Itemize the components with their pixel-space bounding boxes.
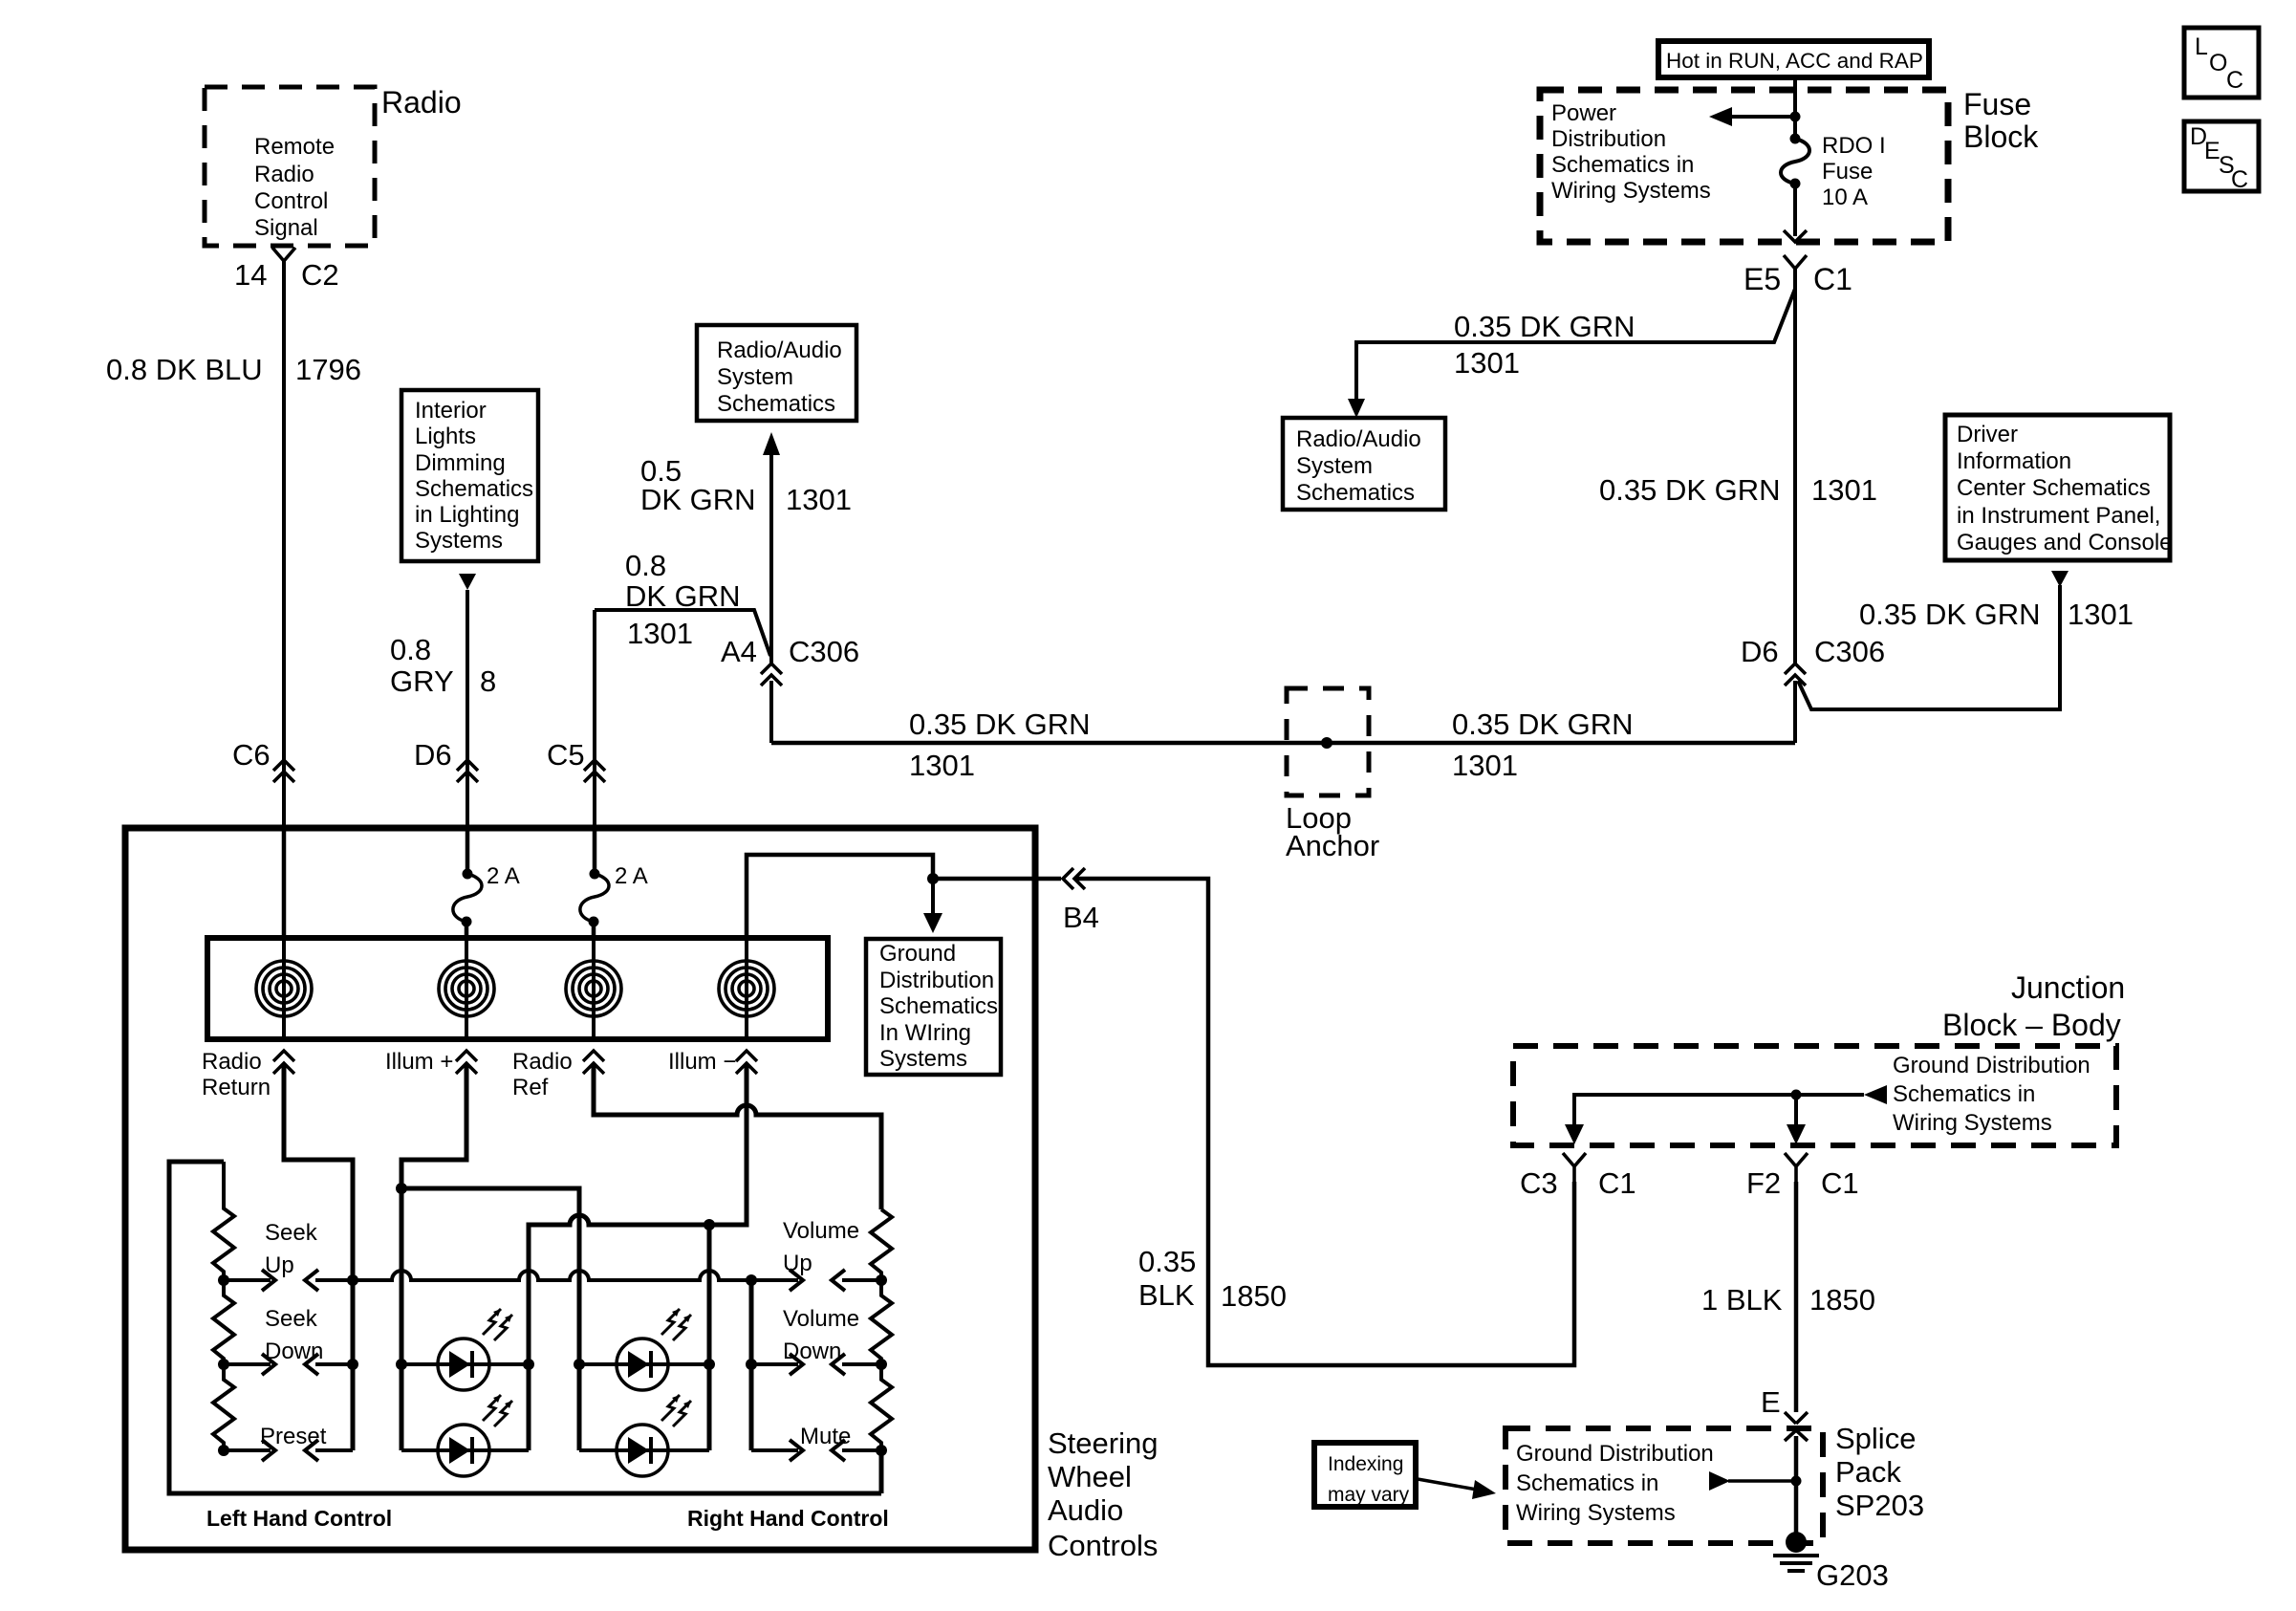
volume chain R6 mute bbox=[871, 1364, 892, 1450]
svg-text:Power: Power bbox=[1551, 100, 1616, 126]
label 1 BLK 1850 bbox=[1701, 1283, 1875, 1317]
wire radio return to switch common bbox=[284, 1063, 353, 1450]
svg-text:Preset: Preset bbox=[260, 1424, 327, 1449]
loop anchor box (dashed) bbox=[1286, 688, 1379, 862]
svg-text:Schematics: Schematics bbox=[717, 391, 835, 417]
LED D2 bbox=[401, 1395, 529, 1476]
svg-text:1796: 1796 bbox=[295, 353, 361, 386]
indexing may vary box bbox=[1314, 1443, 1416, 1507]
wire C5 drop to steering box bbox=[593, 610, 596, 828]
splice pack ground distribution box (dashed) bbox=[1505, 1428, 1823, 1543]
wire illum- to LED rails bbox=[529, 1063, 747, 1450]
wire from hot box into fuse block bbox=[1793, 77, 1797, 139]
radio/audio system schematics box 1 bbox=[697, 325, 856, 421]
svg-text:D6: D6 bbox=[1741, 635, 1779, 668]
coil L4 illum- bbox=[719, 938, 774, 1039]
svg-text:0.35 DK GRN: 0.35 DK GRN bbox=[1452, 708, 1634, 741]
wire volume chain bottom bbox=[879, 1450, 884, 1493]
svg-text:0.35 DK GRN: 0.35 DK GRN bbox=[1859, 598, 2041, 631]
connector illum- (double chevron) bbox=[668, 1049, 757, 1075]
label Fuse Block bbox=[1963, 87, 2039, 154]
svg-text:Hot in RUN, ACC and RAP: Hot in RUN, ACC and RAP bbox=[1666, 49, 1923, 73]
connector radio return (double chevron) bbox=[202, 1049, 294, 1100]
svg-text:Schematics in: Schematics in bbox=[1551, 152, 1694, 178]
LED D3 bbox=[574, 1309, 715, 1390]
wire 0.35 DK GRN 1301 vertical from fuse block to C306 bbox=[1793, 269, 1797, 664]
svg-text:Schematics in: Schematics in bbox=[1893, 1081, 2035, 1107]
coil box bbox=[207, 938, 828, 1039]
svg-text:1301: 1301 bbox=[786, 483, 852, 516]
svg-text:may vary: may vary bbox=[1328, 1484, 1410, 1506]
wire illum- top run to B4 bbox=[747, 855, 1061, 938]
fuse block box (dashed) bbox=[1540, 90, 1948, 242]
svg-text:Controls: Controls bbox=[1048, 1529, 1158, 1562]
svg-text:1301: 1301 bbox=[1452, 749, 1518, 782]
label 0.35 DK GRN 1301 (right of loop anchor) bbox=[1452, 708, 1634, 782]
svg-text:C: C bbox=[2226, 67, 2243, 94]
svg-text:Junction: Junction bbox=[2011, 970, 2125, 1005]
svg-text:2 A: 2 A bbox=[487, 863, 520, 889]
svg-text:Schematics: Schematics bbox=[879, 993, 998, 1019]
svg-text:C: C bbox=[2231, 166, 2248, 193]
connector C1 pin E5 (Y fork) bbox=[1744, 255, 1852, 296]
svg-text:A4: A4 bbox=[721, 635, 757, 668]
connector illum+ (double chevron) bbox=[385, 1049, 477, 1075]
svg-text:Anchor: Anchor bbox=[1286, 829, 1379, 862]
arrow to power distribution (left) bbox=[1709, 107, 1801, 126]
connector radio ref (double chevron) bbox=[512, 1049, 604, 1100]
svg-text:Ground: Ground bbox=[879, 941, 956, 967]
svg-text:Fuse: Fuse bbox=[1822, 159, 1873, 185]
interior lights dimming reference box bbox=[401, 390, 538, 561]
wire 1 BLK 1850 from F2 to splice pack bbox=[1794, 1182, 1799, 1412]
junction dot in junction block bbox=[1791, 1090, 1802, 1100]
svg-text:Dimming: Dimming bbox=[415, 450, 506, 476]
wire 0.35 DK GRN 1301 from DIC to C306 bbox=[1798, 585, 2060, 709]
svg-text:0.8 DK BLU: 0.8 DK BLU bbox=[106, 353, 263, 386]
svg-text:DK GRN: DK GRN bbox=[625, 579, 741, 613]
svg-text:Remote: Remote bbox=[254, 134, 335, 160]
arrow from indexing box bbox=[1418, 1479, 1496, 1499]
volume chain R4 volume up bbox=[871, 1209, 892, 1280]
svg-text:In WIring: In WIring bbox=[879, 1020, 971, 1046]
svg-text:C1: C1 bbox=[1813, 262, 1852, 296]
label 0.35 DK GRN 1301 (to box 2) bbox=[1454, 310, 1635, 380]
svg-text:C1: C1 bbox=[1821, 1166, 1859, 1200]
svg-text:C3: C3 bbox=[1520, 1166, 1558, 1200]
svg-text:in Lighting: in Lighting bbox=[415, 502, 519, 528]
svg-text:C306: C306 bbox=[789, 635, 859, 668]
svg-text:Information: Information bbox=[1957, 448, 2071, 474]
wire from fuse to connector E5/C1 bbox=[1784, 184, 1807, 242]
wire 0.35 DK GRN 1301 from C306 down to long horizontal bbox=[769, 681, 773, 743]
radio/audio system schematics box 2 bbox=[1283, 418, 1445, 510]
svg-text:1301: 1301 bbox=[627, 617, 693, 650]
connector C1 pin C3 (Y fork) bbox=[1520, 1153, 1636, 1200]
svg-text:Systems: Systems bbox=[415, 528, 503, 554]
wire branch to radio/audio box 2 bbox=[1356, 289, 1795, 403]
svg-text:Return: Return bbox=[202, 1075, 271, 1100]
svg-text:0.35: 0.35 bbox=[1138, 1245, 1196, 1278]
loop anchor junction dot bbox=[1321, 737, 1332, 749]
junction dot volume common bbox=[746, 1274, 757, 1286]
hot in RUN ACC RAP box bbox=[1658, 41, 1929, 77]
arrow from text to splice wire bbox=[1709, 1471, 1802, 1491]
svg-text:SP203: SP203 bbox=[1835, 1489, 1924, 1522]
wire 8 0.8 GRY bbox=[466, 590, 469, 828]
svg-text:2 A: 2 A bbox=[615, 863, 648, 889]
svg-text:Mute: Mute bbox=[800, 1424, 851, 1449]
label 0.5 DK GRN 1301 bbox=[640, 454, 852, 516]
svg-text:Control: Control bbox=[254, 188, 328, 214]
svg-text:Radio: Radio bbox=[202, 1049, 262, 1075]
wire 0.35 BLK 1850 from B4 to C1 bbox=[1074, 879, 1574, 1365]
connector C5 (double chevron) bbox=[547, 738, 605, 782]
svg-text:Ref: Ref bbox=[512, 1075, 549, 1100]
svg-text:Down: Down bbox=[783, 1339, 841, 1364]
svg-text:8: 8 bbox=[480, 664, 496, 698]
svg-text:Distribution: Distribution bbox=[879, 968, 994, 993]
svg-text:O: O bbox=[2209, 50, 2227, 76]
LED D4 bbox=[579, 1395, 709, 1476]
connector C6 (double chevron) bbox=[232, 738, 294, 782]
switch seek down bbox=[218, 1306, 358, 1375]
driver information center box bbox=[1945, 415, 2173, 560]
wire 0.35 DK GRN 1301 long horizontal run bbox=[771, 741, 1795, 746]
svg-text:10 A: 10 A bbox=[1822, 185, 1868, 210]
label 0.8 DK GRN 1301 bbox=[625, 549, 741, 650]
wire LED rail 4 bbox=[707, 1225, 712, 1450]
svg-text:Lights: Lights bbox=[415, 424, 476, 449]
svg-text:Radio: Radio bbox=[512, 1049, 573, 1075]
coil L3 radio ref bbox=[566, 938, 621, 1039]
svg-text:Wiring Systems: Wiring Systems bbox=[1893, 1110, 2052, 1136]
LED D1 bbox=[396, 1309, 534, 1390]
svg-text:1 BLK: 1 BLK bbox=[1701, 1283, 1783, 1317]
svg-text:Fuse: Fuse bbox=[1963, 87, 2031, 121]
switch mute bbox=[751, 1424, 887, 1461]
connector D6 (double chevron) bbox=[414, 738, 478, 782]
svg-text:1301: 1301 bbox=[1454, 346, 1520, 380]
svg-text:14: 14 bbox=[234, 258, 267, 292]
arrow up into radio/audio box 1 bbox=[763, 432, 780, 664]
switch volume up bbox=[751, 1218, 887, 1291]
svg-text:Ground Distribution: Ground Distribution bbox=[1516, 1441, 1714, 1467]
ground distribution reference box (in steering box) bbox=[866, 939, 1001, 1075]
svg-text:Wiring Systems: Wiring Systems bbox=[1516, 1500, 1676, 1526]
wire radio ref to volume chain bbox=[594, 1063, 881, 1209]
svg-text:Audio: Audio bbox=[1048, 1493, 1123, 1527]
arrow from interior lights box (filled triangle down) bbox=[459, 574, 476, 590]
svg-text:DK GRN: DK GRN bbox=[640, 483, 756, 516]
svg-text:G203: G203 bbox=[1816, 1558, 1889, 1592]
connector C306 pin A4 (double chevron) bbox=[721, 635, 859, 686]
label Splice Pack SP203 bbox=[1835, 1422, 1924, 1522]
svg-text:B4: B4 bbox=[1063, 901, 1099, 934]
svg-text:0.35 DK GRN: 0.35 DK GRN bbox=[1454, 310, 1635, 343]
switch volume down bbox=[746, 1306, 887, 1375]
junction dot illum- rail bbox=[704, 1219, 715, 1230]
svg-text:1301: 1301 bbox=[2068, 598, 2134, 631]
label RDO I Fuse 10 A bbox=[1822, 133, 1886, 210]
connector C1 pin F2 (Y fork) bbox=[1746, 1153, 1859, 1200]
svg-text:1850: 1850 bbox=[1809, 1283, 1875, 1317]
svg-text:L: L bbox=[2195, 33, 2208, 60]
svg-text:Distribution: Distribution bbox=[1551, 126, 1666, 152]
arrow down to ground distribution box bbox=[923, 879, 942, 933]
svg-text:Schematics: Schematics bbox=[415, 476, 533, 502]
junction block body box (dashed) bbox=[1513, 1046, 2116, 1145]
resistor chain R2 seek down bbox=[213, 1280, 234, 1364]
svg-text:1850: 1850 bbox=[1221, 1279, 1287, 1313]
wire inside junction block with arrow bbox=[1565, 1085, 1887, 1144]
svg-text:Radio/Audio: Radio/Audio bbox=[717, 337, 842, 363]
resistor chain R3 preset bbox=[213, 1364, 234, 1450]
svg-text:Up: Up bbox=[783, 1251, 812, 1276]
ground distribution reference text (splice pack) bbox=[1516, 1441, 1714, 1526]
svg-text:Wiring Systems: Wiring Systems bbox=[1551, 178, 1711, 204]
arrow from driver information center box bbox=[2051, 571, 2069, 587]
wire illum+ cross rail to LED rail 2 bbox=[401, 1188, 579, 1450]
svg-text:F2: F2 bbox=[1746, 1166, 1781, 1200]
fuse 2A (radio ref) bbox=[580, 828, 648, 938]
svg-text:1301: 1301 bbox=[1811, 473, 1877, 507]
svg-text:BLK: BLK bbox=[1138, 1278, 1195, 1312]
arrow down to F2 bbox=[1787, 1095, 1806, 1144]
svg-text:RDO I: RDO I bbox=[1822, 133, 1886, 159]
connector C306 pin D6 (double chevron) bbox=[1741, 635, 1885, 686]
wire 1796 0.8 DK BLU from radio to steering box bbox=[282, 261, 286, 828]
svg-text:Left Hand Control: Left Hand Control bbox=[206, 1506, 392, 1531]
svg-text:Interior: Interior bbox=[415, 398, 487, 424]
svg-text:Schematics: Schematics bbox=[1296, 480, 1415, 506]
svg-text:in Instrument Panel,: in Instrument Panel, bbox=[1957, 503, 2160, 529]
svg-text:Up: Up bbox=[265, 1252, 294, 1278]
DESC box bbox=[2184, 121, 2259, 193]
svg-text:Block: Block bbox=[1963, 120, 2039, 154]
svg-text:C306: C306 bbox=[1814, 635, 1885, 668]
svg-text:E5: E5 bbox=[1744, 262, 1781, 296]
connector C2 pin 14 (Y fork) bbox=[234, 248, 339, 292]
coil L1 radio return bbox=[256, 938, 312, 1039]
svg-text:Illum −: Illum − bbox=[668, 1049, 736, 1075]
svg-text:Schematics in: Schematics in bbox=[1516, 1470, 1658, 1496]
LOC box bbox=[2184, 28, 2259, 98]
svg-text:Steering: Steering bbox=[1048, 1426, 1158, 1460]
svg-text:Illum +: Illum + bbox=[385, 1049, 453, 1075]
svg-text:0.8: 0.8 bbox=[390, 633, 431, 666]
junction dot seek common bbox=[347, 1274, 358, 1286]
svg-text:E: E bbox=[1761, 1385, 1781, 1419]
fuse RDO 10A symbol bbox=[1781, 134, 1809, 189]
svg-text:1301: 1301 bbox=[909, 749, 975, 782]
svg-text:Center Schematics: Center Schematics bbox=[1957, 475, 2151, 501]
label Junction Block - Body bbox=[1942, 970, 2125, 1042]
svg-text:Wheel: Wheel bbox=[1048, 1460, 1132, 1493]
resistor chain R1 seek up bbox=[213, 1162, 234, 1280]
arrow down into radio/audio box 2 bbox=[1348, 399, 1365, 418]
svg-text:Seek: Seek bbox=[265, 1220, 318, 1246]
ground distribution reference text (junction block) bbox=[1893, 1053, 2090, 1136]
wire switch row with hops bbox=[353, 1271, 751, 1280]
svg-text:System: System bbox=[1296, 453, 1373, 479]
wire radio return inside box bbox=[282, 828, 287, 938]
svg-text:Radio/Audio: Radio/Audio bbox=[1296, 426, 1421, 452]
label 0.8 DK BLU 1796 bbox=[106, 353, 361, 386]
label 0.35 DK GRN 1301 (left) bbox=[909, 708, 1091, 782]
connector E (Y fork and chevron) bbox=[1761, 1385, 1808, 1542]
power distribution reference text bbox=[1551, 100, 1711, 204]
label 0.35 DK GRN 1301 (fuse block drop) bbox=[1599, 473, 1877, 507]
left hand control inner box bbox=[169, 1162, 881, 1493]
fuse 2A (illum+) bbox=[453, 828, 520, 938]
svg-text:Volume: Volume bbox=[783, 1306, 859, 1332]
svg-text:0.35 DK GRN: 0.35 DK GRN bbox=[1599, 473, 1781, 507]
steering wheel audio controls box bbox=[125, 828, 1035, 1550]
wire below D6 connector to long horizontal bbox=[1793, 681, 1797, 743]
svg-text:Radio: Radio bbox=[254, 162, 314, 187]
svg-text:System: System bbox=[717, 364, 793, 390]
wire volume common rail bbox=[749, 1280, 754, 1450]
svg-text:Volume: Volume bbox=[783, 1218, 859, 1244]
svg-text:Down: Down bbox=[265, 1339, 323, 1364]
svg-text:Gauges and Console: Gauges and Console bbox=[1957, 530, 2173, 555]
svg-text:C6: C6 bbox=[232, 738, 271, 772]
svg-text:Indexing: Indexing bbox=[1328, 1453, 1403, 1475]
svg-text:0.8: 0.8 bbox=[625, 549, 666, 582]
label Steering Wheel Audio Controls bbox=[1048, 1426, 1158, 1562]
svg-text:0.35 DK GRN: 0.35 DK GRN bbox=[909, 708, 1091, 741]
svg-text:Pack: Pack bbox=[1835, 1455, 1901, 1489]
label 0.35 BLK 1850 bbox=[1138, 1245, 1287, 1313]
wire illum+ to LED rail 1 bbox=[401, 1063, 466, 1450]
label 0.35 DK GRN 1301 (DIC) bbox=[1859, 598, 2134, 631]
svg-text:Block – Body: Block – Body bbox=[1942, 1008, 2121, 1042]
svg-text:Seek: Seek bbox=[265, 1306, 318, 1332]
svg-text:Signal: Signal bbox=[254, 215, 318, 241]
svg-text:GRY: GRY bbox=[390, 664, 454, 698]
svg-text:D6: D6 bbox=[414, 738, 452, 772]
ground G203 bbox=[1773, 1532, 1889, 1592]
svg-text:C1: C1 bbox=[1598, 1166, 1636, 1200]
svg-text:Splice: Splice bbox=[1835, 1422, 1916, 1455]
volume chain R5 volume down bbox=[871, 1280, 892, 1364]
coil L2 illum+ bbox=[439, 938, 494, 1039]
junction dot ground branch bbox=[927, 873, 939, 884]
svg-text:Systems: Systems bbox=[879, 1046, 967, 1072]
radio box (Remote Radio Control Signal, dashed) bbox=[205, 87, 375, 246]
switch preset bbox=[218, 1424, 353, 1461]
svg-text:Driver: Driver bbox=[1957, 422, 2018, 447]
svg-text:Ground Distribution: Ground Distribution bbox=[1893, 1053, 2090, 1078]
svg-text:C2: C2 bbox=[301, 258, 339, 292]
wire 0.8 DK GRN from C5 wire to connector C306 bbox=[595, 610, 770, 656]
connector B4 (double chevron left) bbox=[1063, 868, 1099, 934]
svg-text:Right Hand Control: Right Hand Control bbox=[687, 1506, 889, 1531]
svg-text:C5: C5 bbox=[547, 738, 585, 772]
label 0.8 GRY 8 bbox=[390, 633, 496, 698]
junction dot illum+ rail bbox=[396, 1183, 407, 1194]
svg-text:Radio: Radio bbox=[381, 85, 462, 120]
switch seek up bbox=[218, 1220, 353, 1291]
